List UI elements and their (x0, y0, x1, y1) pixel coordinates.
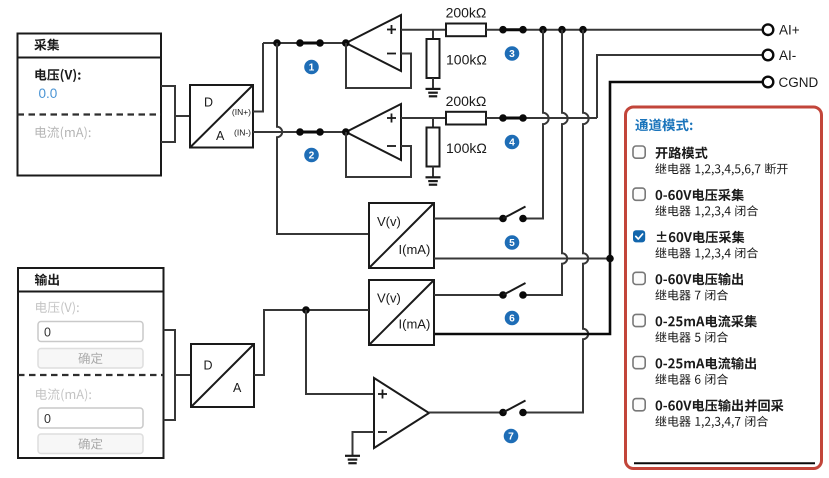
wire U3 feedback loop (346, 43, 411, 88)
mode 6 relays 继电器 6 闭合 (655, 374, 728, 385)
collect panel title 采集 (34, 39, 59, 51)
svg-text:2: 2 (309, 151, 315, 162)
resistor 200kΩ (ch1) (446, 24, 486, 37)
svg-text:4: 4 (509, 138, 515, 149)
wire bus 1 to relay 5 (hop at AI- line) (523, 30, 549, 219)
D/A converter U2 (191, 344, 254, 407)
svg-text:A: A (216, 129, 225, 143)
svg-text:3: 3 (509, 49, 515, 60)
wire V/I 5 voltage out (434, 218, 503, 220)
node AI+ bus junction 3 (579, 26, 587, 34)
output panel frame (18, 268, 164, 458)
wire DAC1 IN- line (253, 131, 346, 133)
wire U3 +input (401, 29, 446, 31)
output panel dashed divider (18, 374, 164, 376)
op-amp U4 output junction (342, 128, 350, 136)
op-amp U3 output junction (342, 39, 350, 47)
svg-text:5: 5 (509, 238, 515, 249)
resistor 200kΩ (ch2) (446, 112, 486, 125)
output panel connector bracket (164, 330, 176, 420)
svg-text:CGND: CGND (779, 75, 819, 90)
mode 2 relays 继电器 1,2,3,4 闭合 (655, 205, 758, 217)
node CGND junction (606, 255, 614, 263)
wire line A (IN+ bus) (263, 42, 346, 44)
collect label 电压(V): (35, 69, 80, 82)
relay 2 (closed) (296, 128, 324, 136)
svg-text:6: 6 (509, 314, 515, 325)
svg-text:0: 0 (44, 412, 51, 426)
checkbox mode 5 (633, 314, 645, 326)
wire U4 +input (401, 117, 446, 119)
svg-text:AI-: AI- (779, 48, 796, 63)
label 200kΩ (ch1) (446, 5, 487, 21)
relay 2 badge (304, 148, 319, 163)
checkbox mode 3 (checked) (633, 230, 645, 242)
terminal AI+ (763, 23, 800, 38)
relay 7 badge (504, 429, 519, 444)
relay 3 (closed) (499, 26, 527, 34)
svg-text:7: 7 (508, 432, 514, 443)
svg-text:V(v): V(v) (377, 214, 401, 229)
wire AI- drop (597, 55, 763, 118)
mode 4 relays 继电器 7 闭合 (655, 289, 728, 300)
svg-text:200kΩ: 200kΩ (446, 93, 487, 109)
mode 5 relays 继电器 5 闭合 (655, 332, 728, 343)
node A1 junction (273, 39, 281, 47)
mode 7 relays 继电器 1,2,3,4,7 闭合 (655, 416, 768, 428)
resistor 100kΩ (ch1) (427, 30, 440, 89)
wire CGND path (434, 82, 763, 334)
mode 5 label 0-25mA电流采集 (656, 315, 757, 328)
A/D converter U1 (190, 85, 253, 148)
wire vertical to V/I converter 5 (with hops) (277, 43, 369, 234)
checkbox mode 7 (633, 399, 645, 411)
wire tap to op-amp U5 +input (306, 310, 374, 394)
collect panel connector bracket (161, 86, 175, 142)
node AI+ bus junction 2 (558, 26, 566, 34)
checkbox mode 1 (633, 146, 645, 158)
output voltage input box (38, 322, 143, 342)
svg-text:(IN+): (IN+) (232, 107, 251, 117)
wire bracket to DAC1 (175, 115, 190, 117)
ground (ch1) (426, 89, 441, 96)
wire AI- to relay 4 (486, 117, 597, 119)
channel mode panel bottom rule (634, 462, 815, 464)
output label 电流(mA): (36, 388, 91, 401)
node DAC2 output junction (302, 306, 310, 314)
relay 4 (closed) (499, 114, 527, 122)
svg-text:D: D (204, 359, 213, 373)
mode 7 label 0-60V电压输出并回采 (656, 399, 784, 412)
svg-text:D: D (204, 95, 213, 109)
svg-text:V(v): V(v) (377, 291, 401, 306)
ground (ch2) (426, 177, 441, 184)
relay 6 (open) (499, 283, 527, 299)
mode 2 label 0-60V电压采集 (656, 189, 744, 202)
relay 5 badge (505, 235, 520, 250)
checkbox mode 2 (633, 188, 645, 200)
collect panel dashed divider (18, 113, 162, 115)
op-amp U5 (374, 378, 429, 448)
channel mode title 通道模式: (635, 118, 692, 131)
checkbox mode 4 (633, 272, 645, 284)
relay 7 (open) (499, 401, 527, 417)
output panel title 输出 (35, 274, 59, 286)
wire DAC2 to V/I 6 (254, 310, 369, 375)
output current confirm button 确定 (38, 434, 143, 454)
mode 4 label 0-60V电压输出 (656, 273, 743, 286)
output voltage confirm button 确定 (38, 349, 143, 369)
mode 3 relays 继电器 1,2,3,4 闭合 (655, 247, 758, 259)
V/I converter block 6 (369, 280, 434, 345)
relay 1 badge (304, 60, 319, 75)
label 200kΩ (ch2) (446, 93, 487, 109)
relay 6 badge (505, 311, 520, 326)
op-amp buffer U4 (346, 104, 401, 160)
svg-text:I(mA): I(mA) (399, 242, 431, 257)
wire U5 -input to ground (353, 432, 375, 456)
mode 3 label ±60V电压采集 (657, 231, 745, 244)
wire bracket to DAC2 (175, 374, 191, 376)
svg-text:I(mA): I(mA) (399, 317, 431, 332)
svg-text:(IN-): (IN-) (234, 128, 251, 138)
svg-text:100kΩ: 100kΩ (446, 52, 487, 68)
svg-text:200kΩ: 200kΩ (446, 5, 487, 21)
terminal AI- (763, 48, 797, 63)
relay 5 (open) (499, 207, 527, 223)
svg-text:AI+: AI+ (779, 23, 800, 38)
resistor 100kΩ (ch2) (427, 118, 440, 177)
collect voltage value 0.0 (39, 86, 58, 101)
svg-text:0: 0 (44, 326, 51, 340)
wire V/I 6 voltage out (434, 294, 503, 296)
relay 4 badge (505, 135, 520, 150)
relay 1 (closed) (296, 39, 324, 47)
mode 1 relays 继电器 1,2,3,4,5,6,7 断开 (655, 163, 787, 175)
label 100kΩ (ch2) (446, 140, 487, 156)
ground (U5) (345, 456, 360, 463)
wire AI+ bus (486, 29, 763, 31)
label 100kΩ (ch1) (446, 52, 487, 68)
svg-text:1: 1 (309, 63, 315, 74)
terminal CGND (763, 75, 819, 90)
svg-text:A: A (233, 381, 242, 395)
wire DAC1 IN+ to node A (253, 43, 263, 112)
collect label 电流(mA): (36, 126, 91, 139)
op-amp buffer U3 (346, 15, 401, 71)
collect panel frame (18, 34, 162, 176)
wire V/I 5 current out (434, 258, 610, 260)
mode 6 label 0-25mA电流输出 (656, 357, 756, 370)
checkbox mode 6 (633, 357, 645, 369)
V/I converter block 5 (369, 203, 434, 268)
svg-text:0.0: 0.0 (39, 86, 58, 101)
mode 1 label 开路模式 (656, 147, 708, 159)
channel mode panel frame (626, 107, 822, 469)
output current input box (38, 408, 143, 428)
node AI+ bus junction 1 (539, 26, 547, 34)
svg-text:100kΩ: 100kΩ (446, 140, 487, 156)
wire bus 3 to relay 7 (hops) (523, 30, 589, 413)
relay 3 badge (505, 46, 520, 61)
wire U4 feedback loop (346, 132, 411, 177)
wire bus 2 to relay 6 (hops) (523, 30, 568, 295)
output label 电压(V): (36, 301, 79, 314)
wire U5 output (429, 412, 503, 414)
